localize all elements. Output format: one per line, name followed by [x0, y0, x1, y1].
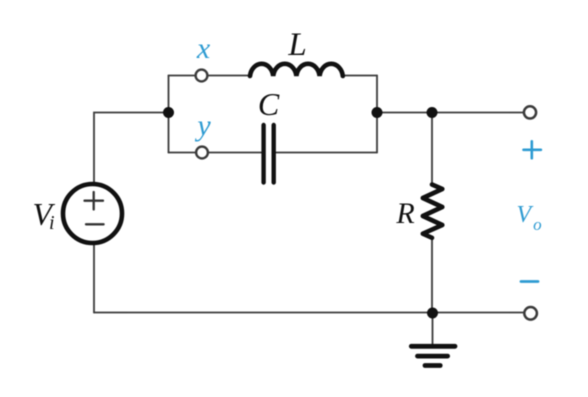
wire top branch inductor-to-corner — [343, 75, 377, 77]
svg-text:x: x — [196, 32, 211, 65]
wire mid output rail — [377, 112, 524, 114]
terminal y — [196, 147, 208, 159]
voltage source Vi — [63, 184, 122, 243]
wire LC loop left vertical — [168, 76, 170, 153]
wire bottom branch left — [169, 152, 197, 154]
ground — [411, 346, 455, 365]
wire top branch left — [169, 75, 196, 77]
wire bottom rail — [94, 312, 524, 314]
wire LC loop right vertical — [376, 76, 378, 153]
wire top branch x-to-inductor — [207, 75, 250, 77]
wire R branch lower — [431, 238, 433, 313]
svg-text:R: R — [395, 197, 414, 230]
svg-text:y: y — [194, 109, 211, 142]
wire bottom branch y-to-capacitor — [208, 152, 262, 154]
svg-text:L: L — [287, 27, 306, 63]
wire R branch upper — [431, 113, 433, 185]
node R top — [427, 107, 438, 118]
inductor L — [250, 64, 343, 76]
wire ground stub — [432, 313, 434, 345]
minus sign output — [521, 280, 538, 283]
node right of tank — [372, 107, 383, 118]
svg-text:C: C — [258, 86, 280, 122]
wire bottom branch capacitor-to-corner — [276, 152, 377, 154]
resistor R — [423, 185, 443, 238]
terminal output minus — [524, 307, 537, 320]
terminal x — [196, 70, 208, 82]
capacitor C — [264, 125, 274, 183]
wire source top to node — [94, 113, 169, 185]
node left — [163, 107, 174, 118]
node ground — [427, 308, 438, 319]
plus sign output — [524, 141, 541, 158]
terminal output plus — [524, 106, 536, 118]
wire source bottom left vertical — [93, 244, 95, 313]
